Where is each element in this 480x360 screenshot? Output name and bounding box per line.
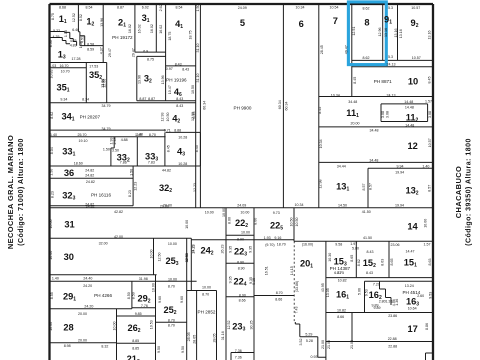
svg-text:24.82: 24.82 xyxy=(86,180,95,184)
svg-text:1.40: 1.40 xyxy=(135,133,142,137)
parcel 22-2 bottom xyxy=(226,234,254,236)
svg-text:8.50: 8.50 xyxy=(127,292,131,299)
svg-text:31.10: 31.10 xyxy=(196,74,200,83)
svg-text:31.10: 31.10 xyxy=(196,44,200,53)
svg-text:8.57: 8.57 xyxy=(362,184,366,191)
svg-text:24.13: 24.13 xyxy=(387,63,396,67)
svg-text:8.62: 8.62 xyxy=(363,7,370,11)
outer border xyxy=(50,4,434,360)
svg-text:10.00: 10.00 xyxy=(49,251,53,260)
svg-text:8.65: 8.65 xyxy=(350,255,354,262)
svg-text:8.90: 8.90 xyxy=(237,260,244,264)
svg-text:18.75: 18.75 xyxy=(188,31,192,40)
svg-text:9.35: 9.35 xyxy=(228,276,232,283)
svg-text:PH 4266: PH 4266 xyxy=(94,293,112,298)
rotated dimension labels xyxy=(49,4,433,353)
svg-text:8.54: 8.54 xyxy=(176,5,183,9)
svg-text:34.48: 34.48 xyxy=(348,100,357,104)
svg-text:8.43: 8.43 xyxy=(176,104,183,108)
svg-text:8.57: 8.57 xyxy=(369,183,373,190)
svg-text:22.88: 22.88 xyxy=(388,337,397,341)
parcel 3-1 right xyxy=(155,4,157,52)
svg-text:8.90: 8.90 xyxy=(238,267,245,271)
svg-text:28: 28 xyxy=(63,323,73,333)
svg-text:9.50: 9.50 xyxy=(181,346,185,353)
parcel 26-2 top xyxy=(117,315,156,317)
svg-text:PH 2852: PH 2852 xyxy=(198,310,216,315)
svg-text:8.43: 8.43 xyxy=(366,271,373,275)
svg-text:17: 17 xyxy=(408,324,418,334)
svg-text:34.48: 34.48 xyxy=(370,129,379,133)
svg-text:9.35: 9.35 xyxy=(248,246,252,253)
svg-text:6: 6 xyxy=(299,19,304,29)
svg-text:8.58: 8.58 xyxy=(87,43,94,47)
svg-text:(33.86): (33.86) xyxy=(295,281,299,292)
svg-text:4.37: 4.37 xyxy=(99,47,103,54)
parcel 20/21 dashed boundary xyxy=(293,241,295,322)
svg-text:16.70: 16.70 xyxy=(60,64,69,68)
svg-text:1.16: 1.16 xyxy=(64,30,68,37)
svg-text:10.00: 10.00 xyxy=(240,210,249,214)
svg-text:20.00: 20.00 xyxy=(351,121,360,125)
svg-text:17.28: 17.28 xyxy=(72,57,81,61)
svg-text:8.85: 8.85 xyxy=(132,346,139,350)
corner box xyxy=(426,353,434,360)
svg-text:1.40: 1.40 xyxy=(52,276,59,280)
parcel 31 bottom xyxy=(50,237,192,239)
svg-text:12.50: 12.50 xyxy=(157,253,161,262)
svg-text:0.93: 0.93 xyxy=(311,355,318,359)
parcel 32-3 bottom xyxy=(50,205,134,207)
parcel 35-2 right xyxy=(106,63,108,103)
svg-text:21.00: 21.00 xyxy=(321,340,325,349)
svg-text:34.44: 34.44 xyxy=(337,165,346,169)
svg-text:0.97: 0.97 xyxy=(166,67,173,71)
svg-text:30.25: 30.25 xyxy=(249,321,253,330)
svg-text:8.45: 8.45 xyxy=(167,145,171,152)
svg-text:4.88: 4.88 xyxy=(121,138,128,142)
svg-text:10.00: 10.00 xyxy=(423,219,427,228)
svg-text:24.82: 24.82 xyxy=(86,205,95,209)
svg-text:PH 8871: PH 8871 xyxy=(374,79,392,84)
svg-text:9.35: 9.35 xyxy=(228,246,232,253)
strip/4 boundary xyxy=(165,4,167,101)
svg-text:24.13: 24.13 xyxy=(387,94,396,98)
svg-text:3.08: 3.08 xyxy=(428,111,432,118)
svg-text:8.32: 8.32 xyxy=(101,345,108,349)
svg-text:10.00: 10.00 xyxy=(241,231,250,235)
svg-text:8: 8 xyxy=(364,18,369,28)
svg-text:9.85: 9.85 xyxy=(135,312,142,316)
svg-text:14: 14 xyxy=(407,222,418,232)
svg-text:19.94: 19.94 xyxy=(395,170,404,174)
svg-text:8.43: 8.43 xyxy=(367,250,374,254)
parcel ph2852 right xyxy=(216,291,218,360)
parcel 12 bottom xyxy=(319,161,433,163)
svg-text:8.66: 8.66 xyxy=(337,315,344,319)
svg-text:8.45: 8.45 xyxy=(318,107,322,114)
parcel 22-3 bottom xyxy=(226,262,254,264)
svg-text:10.53: 10.53 xyxy=(149,320,153,329)
svg-text:8.70: 8.70 xyxy=(149,133,156,137)
svg-text:8.75: 8.75 xyxy=(51,13,55,20)
parcel 10 bottom xyxy=(319,96,433,98)
svg-text:8.04: 8.04 xyxy=(50,147,54,154)
svg-text:12.06: 12.06 xyxy=(101,79,105,88)
svg-text:10.30: 10.30 xyxy=(328,253,332,262)
parcel 34 top xyxy=(50,102,196,104)
svg-text:2.62: 2.62 xyxy=(159,4,163,11)
svg-text:3.08: 3.08 xyxy=(385,111,389,118)
parcel 33-2/33-3 boundary xyxy=(136,137,138,166)
svg-text:10.00: 10.00 xyxy=(202,286,211,290)
svg-text:1.50: 1.50 xyxy=(129,169,133,176)
svg-text:5.29: 5.29 xyxy=(305,333,312,337)
svg-text:10.64: 10.64 xyxy=(408,306,417,310)
parcel 17 bottom xyxy=(326,341,433,343)
parcel 33-3/4-3 boundary xyxy=(164,132,166,166)
svg-text:7.43: 7.43 xyxy=(294,307,298,314)
svg-text:7.86: 7.86 xyxy=(120,161,127,165)
svg-text:0.71: 0.71 xyxy=(164,129,171,133)
parcel 1-3 bottom xyxy=(50,62,107,64)
svg-text:9.50: 9.50 xyxy=(157,346,161,353)
svg-text:28.05: 28.05 xyxy=(187,332,191,341)
svg-text:3.52: 3.52 xyxy=(299,339,303,346)
svg-text:9.53: 9.53 xyxy=(364,289,368,296)
svg-text:10.47: 10.47 xyxy=(168,85,172,94)
parcel 3-2 top xyxy=(137,55,166,57)
svg-text:36: 36 xyxy=(64,168,74,178)
svg-text:8.59: 8.59 xyxy=(87,47,94,51)
svg-text:14.47: 14.47 xyxy=(406,249,415,253)
svg-text:10.34: 10.34 xyxy=(331,93,340,97)
svg-text:7.36: 7.36 xyxy=(235,349,242,353)
parcel 1-1/1-2 boundary xyxy=(78,4,80,46)
parcel 20 col left xyxy=(293,208,295,241)
parcel 15-2/15-1 boundary xyxy=(388,241,390,277)
svg-text:(Código: 39350) Altura: 1800: (Código: 39350) Altura: 1800 xyxy=(465,138,472,246)
svg-text:7.76: 7.76 xyxy=(141,304,148,308)
svg-text:8.70: 8.70 xyxy=(168,284,175,288)
parcel 23 col left xyxy=(225,208,227,360)
svg-text:10.34: 10.34 xyxy=(296,6,305,10)
parcel 9-1/9-2 boundary xyxy=(397,4,399,60)
parcel 16-2 box top xyxy=(365,280,434,282)
svg-text:8.34: 8.34 xyxy=(82,97,89,101)
svg-text:7.83: 7.83 xyxy=(148,161,155,165)
svg-text:9.35: 9.35 xyxy=(252,278,256,285)
svg-text:8.55: 8.55 xyxy=(50,292,54,299)
svg-text:16.02: 16.02 xyxy=(128,24,132,33)
svg-text:60.34: 60.34 xyxy=(285,102,289,111)
svg-text:8.62: 8.62 xyxy=(363,56,370,60)
svg-text:7.36: 7.36 xyxy=(235,356,242,360)
svg-text:8.43: 8.43 xyxy=(175,62,182,66)
svg-text:6.02: 6.02 xyxy=(142,5,149,9)
svg-text:1.58: 1.58 xyxy=(79,41,83,48)
small lot divider xyxy=(80,36,85,46)
svg-text:41.50: 41.50 xyxy=(362,210,371,214)
svg-text:13.16: 13.16 xyxy=(394,29,398,38)
svg-text:25.70: 25.70 xyxy=(78,133,87,137)
svg-text:10.57: 10.57 xyxy=(411,6,420,10)
svg-text:8.63: 8.63 xyxy=(380,259,384,266)
svg-text:31.98: 31.98 xyxy=(139,277,148,281)
svg-text:16.02: 16.02 xyxy=(150,24,154,33)
svg-text:1.93: 1.93 xyxy=(264,236,271,240)
svg-text:12.52: 12.52 xyxy=(72,13,76,22)
svg-text:5.80: 5.80 xyxy=(352,246,359,250)
svg-text:28.45: 28.45 xyxy=(320,45,324,54)
parcel 20-1 notch xyxy=(295,322,326,357)
parcel 4-2 bottom xyxy=(166,131,201,133)
svg-text:34.79: 34.79 xyxy=(102,127,111,131)
parcel 36 bottom xyxy=(50,177,134,179)
parcel 3-1 bottom xyxy=(135,51,166,53)
svg-text:13.16: 13.16 xyxy=(384,28,388,37)
parcel 33 row top xyxy=(50,136,166,138)
parcel 22 col right xyxy=(253,208,255,360)
svg-text:10.00: 10.00 xyxy=(149,250,153,259)
svg-text:PH 9900: PH 9900 xyxy=(234,105,252,110)
svg-text:10.00: 10.00 xyxy=(222,208,226,217)
svg-text:5: 5 xyxy=(240,18,245,28)
svg-text:10.50: 10.50 xyxy=(166,113,170,122)
svg-text:20.00: 20.00 xyxy=(160,205,169,209)
svg-text:NECOCHEA GRAL. MARIANO: NECOCHEA GRAL. MARIANO xyxy=(6,135,15,249)
svg-text:10.00: 10.00 xyxy=(49,322,53,331)
svg-text:4.89: 4.89 xyxy=(70,43,77,47)
svg-text:12.23: 12.23 xyxy=(193,183,197,192)
svg-text:23.86: 23.86 xyxy=(388,314,397,318)
svg-text:1.36: 1.36 xyxy=(395,299,399,306)
svg-text:29.47: 29.47 xyxy=(108,48,112,57)
parcel 35-1/35-2 boundary xyxy=(85,63,87,103)
svg-text:29.47: 29.47 xyxy=(131,48,135,57)
svg-text:10.83: 10.83 xyxy=(49,70,53,79)
svg-text:PH 19172: PH 19172 xyxy=(112,35,133,40)
parcel 33-1/33-2 boundary xyxy=(111,137,114,166)
svg-text:8.45: 8.45 xyxy=(195,145,199,152)
svg-text:28.05: 28.05 xyxy=(192,335,196,344)
svg-text:3.50: 3.50 xyxy=(112,148,119,152)
svg-text:8.45: 8.45 xyxy=(427,77,431,84)
parcel 33 row bottom xyxy=(50,165,201,167)
svg-text:8.00: 8.00 xyxy=(253,218,257,225)
svg-text:10.50: 10.50 xyxy=(191,85,195,94)
svg-text:8.45: 8.45 xyxy=(353,77,357,84)
svg-text:20.00: 20.00 xyxy=(78,312,87,316)
svg-text:9.94: 9.94 xyxy=(397,164,404,168)
svg-text:41.50: 41.50 xyxy=(363,236,372,240)
svg-text:2.60: 2.60 xyxy=(417,294,424,298)
svg-text:5.3: 5.3 xyxy=(388,55,393,59)
svg-text:10.00: 10.00 xyxy=(185,220,189,229)
svg-text:8.70: 8.70 xyxy=(168,318,175,322)
svg-text:24.40: 24.40 xyxy=(83,276,92,280)
svg-text:18.60: 18.60 xyxy=(74,162,83,166)
svg-text:10.34: 10.34 xyxy=(295,203,304,207)
svg-text:8.90: 8.90 xyxy=(237,238,244,242)
parcel 16-1/16-2 boundary xyxy=(364,281,366,312)
svg-text:14.48: 14.48 xyxy=(404,100,413,104)
svg-text:10.54: 10.54 xyxy=(330,6,339,10)
svg-text:9.34: 9.34 xyxy=(60,97,67,101)
svg-text:8.70: 8.70 xyxy=(168,324,175,328)
strip a left xyxy=(186,238,188,360)
svg-text:8.88: 8.88 xyxy=(174,129,181,133)
svg-text:13.96: 13.96 xyxy=(137,75,141,84)
svg-text:8.00: 8.00 xyxy=(227,217,231,224)
svg-text:49.47: 49.47 xyxy=(345,45,349,54)
svg-text:21.00: 21.00 xyxy=(350,340,354,349)
parcel 4-1 bottom xyxy=(166,65,196,67)
svg-text:23.06: 23.06 xyxy=(391,243,400,247)
svg-text:19.94: 19.94 xyxy=(395,203,404,207)
svg-text:6.73: 6.73 xyxy=(334,271,341,275)
parcel 11 bottom xyxy=(319,126,433,128)
parcel 30 bottom xyxy=(50,274,157,276)
parcel 13-1/13-2 boundary xyxy=(367,168,369,208)
svg-text:8.43: 8.43 xyxy=(182,68,189,72)
svg-text:24.09: 24.09 xyxy=(237,204,246,208)
svg-text:8.68: 8.68 xyxy=(59,5,66,9)
parcel 18 col bottom xyxy=(254,295,294,297)
svg-text:16.02: 16.02 xyxy=(159,25,163,34)
dimension labels xyxy=(49,5,432,359)
svg-text:24.82: 24.82 xyxy=(85,169,94,173)
svg-text:13.96: 13.96 xyxy=(100,18,104,27)
svg-text:10.00: 10.00 xyxy=(113,322,117,331)
parcel 36 right xyxy=(132,166,134,206)
svg-text:1.50: 1.50 xyxy=(196,5,200,12)
parcel 10 top xyxy=(352,66,433,68)
svg-text:2.48: 2.48 xyxy=(113,138,117,145)
svg-text:13.16: 13.16 xyxy=(427,31,431,40)
svg-text:8.90: 8.90 xyxy=(239,293,246,297)
svg-text:10.50: 10.50 xyxy=(289,218,293,227)
svg-text:12: 12 xyxy=(408,141,418,151)
svg-text:1.03: 1.03 xyxy=(49,64,56,68)
parcel 4-3 right xyxy=(199,132,201,166)
parcel 29-1 box right xyxy=(131,281,133,308)
svg-text:8.87: 8.87 xyxy=(148,97,155,101)
svg-text:14.48: 14.48 xyxy=(405,124,414,128)
svg-text:9.16: 9.16 xyxy=(274,236,281,240)
svg-text:16.51: 16.51 xyxy=(265,266,269,275)
svg-text:10.57: 10.57 xyxy=(428,138,432,147)
svg-text:20.00: 20.00 xyxy=(78,339,87,343)
svg-text:8.66: 8.66 xyxy=(239,298,246,302)
svg-text:12.52: 12.52 xyxy=(227,321,231,330)
svg-text:26.23: 26.23 xyxy=(220,245,224,254)
svg-text:17.53: 17.53 xyxy=(89,65,98,69)
svg-text:8.63: 8.63 xyxy=(428,259,432,266)
svg-text:10.82: 10.82 xyxy=(338,278,347,282)
svg-text:24.23: 24.23 xyxy=(192,245,196,254)
svg-text:8.70: 8.70 xyxy=(276,291,283,295)
svg-text:10.00: 10.00 xyxy=(152,283,156,292)
svg-text:9.73: 9.73 xyxy=(273,211,280,215)
svg-text:10.50: 10.50 xyxy=(295,218,299,227)
svg-text:31.16: 31.16 xyxy=(221,331,225,340)
lane right line xyxy=(199,4,201,208)
svg-text:8.66: 8.66 xyxy=(275,298,282,302)
parcel 30/25-3 boundary xyxy=(153,238,155,275)
parcel 22-4 bottom xyxy=(226,296,254,298)
parcel 29-2/25-2 boundary xyxy=(155,275,157,360)
svg-text:5.06: 5.06 xyxy=(357,288,361,295)
svg-text:12.96: 12.96 xyxy=(378,28,382,37)
parcel 17 left xyxy=(351,313,353,342)
parcel 7/8 boundary xyxy=(351,4,353,97)
svg-text:19.10: 19.10 xyxy=(79,139,88,143)
svg-text:PH 16116: PH 16116 xyxy=(91,193,112,198)
svg-text:32.00: 32.00 xyxy=(99,242,108,246)
svg-text:8.62: 8.62 xyxy=(50,112,54,119)
svg-text:12.23: 12.23 xyxy=(134,182,138,191)
svg-text:60.34: 60.34 xyxy=(203,101,207,110)
svg-text:1.50: 1.50 xyxy=(103,148,110,152)
parcel 29-2 bottom xyxy=(132,307,156,309)
svg-text:6.9: 6.9 xyxy=(143,50,148,54)
svg-text:10.57: 10.57 xyxy=(412,56,421,60)
svg-text:12.50: 12.50 xyxy=(185,254,189,263)
svg-text:13.16: 13.16 xyxy=(399,29,403,38)
svg-text:9.53: 9.53 xyxy=(429,292,433,299)
parcel 15-3/15-2 boundary xyxy=(355,241,357,277)
svg-text:8.98: 8.98 xyxy=(64,344,71,348)
parcel 2/3 boundary xyxy=(134,4,136,52)
svg-text:18.75: 18.75 xyxy=(168,32,172,41)
parcel 3-2 left xyxy=(136,56,138,100)
svg-text:12.93: 12.93 xyxy=(160,113,164,122)
svg-text:8.54: 8.54 xyxy=(86,5,93,9)
svg-text:1.40: 1.40 xyxy=(50,133,57,137)
parcel 1-1 bottom step xyxy=(50,32,77,46)
svg-text:14.50: 14.50 xyxy=(338,203,347,207)
parcel 3-2 bottom xyxy=(137,100,166,102)
parcel 23-3 bottom box xyxy=(231,353,254,360)
svg-text:16.02: 16.02 xyxy=(137,24,141,33)
svg-text:22.88: 22.88 xyxy=(388,345,397,349)
svg-text:8.56: 8.56 xyxy=(49,40,53,47)
svg-text:24.20: 24.20 xyxy=(83,284,92,288)
parcel 1-2 bottom xyxy=(80,45,103,47)
svg-text:PH 19196: PH 19196 xyxy=(166,78,187,83)
svg-text:5.3: 5.3 xyxy=(388,6,393,10)
svg-text:12.51: 12.51 xyxy=(352,27,356,36)
svg-text:10.82: 10.82 xyxy=(337,308,346,312)
svg-text:10.00: 10.00 xyxy=(205,210,214,214)
svg-text:8.87: 8.87 xyxy=(139,97,146,101)
parcel 26-2 bottom xyxy=(117,342,156,344)
svg-text:44.82: 44.82 xyxy=(162,169,171,173)
parcel 4-6 bottom xyxy=(166,100,196,102)
svg-text:8.65: 8.65 xyxy=(390,259,394,266)
svg-text:8.50: 8.50 xyxy=(131,292,135,299)
parcel 28 bottom xyxy=(50,342,117,344)
svg-text:12.98: 12.98 xyxy=(319,180,323,189)
svg-text:7.29: 7.29 xyxy=(373,283,380,287)
lane left line xyxy=(195,4,197,208)
svg-text:10.34: 10.34 xyxy=(319,139,323,148)
svg-text:4.35: 4.35 xyxy=(53,35,60,39)
svg-text:(Código: 71000) Altura: 1800: (Código: 71000) Altura: 1800 xyxy=(18,138,25,246)
svg-text:5.22: 5.22 xyxy=(53,29,60,33)
parcel 1-3 top step xyxy=(50,38,71,44)
